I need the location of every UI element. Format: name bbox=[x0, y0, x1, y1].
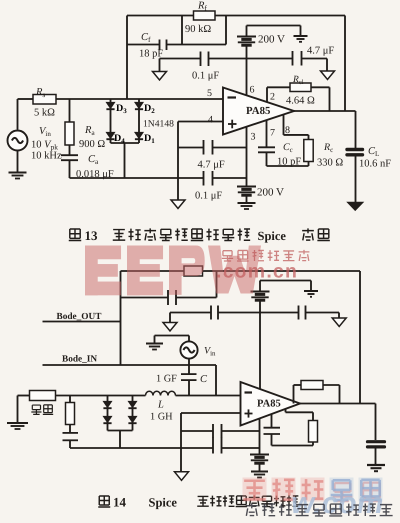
svg-text:Bode_IN: Bode_IN bbox=[62, 355, 97, 365]
svg-text:Bode_OUT: Bode_OUT bbox=[57, 312, 103, 322]
svg-text:10 pF: 10 pF bbox=[277, 157, 301, 168]
svg-text:0.018 μF: 0.018 μF bbox=[76, 169, 114, 180]
svg-text:1 GH: 1 GH bbox=[150, 412, 173, 423]
svg-text:5: 5 bbox=[207, 88, 212, 99]
svg-text:200 V: 200 V bbox=[258, 34, 285, 46]
svg-text:1 GF: 1 GF bbox=[156, 374, 177, 385]
svg-text:Spice: Spice bbox=[258, 229, 287, 243]
svg-text:4.64 Ω: 4.64 Ω bbox=[286, 96, 315, 107]
svg-text:PA85: PA85 bbox=[246, 105, 270, 117]
svg-text:10 kHz: 10 kHz bbox=[31, 151, 62, 162]
svg-text:4: 4 bbox=[208, 115, 213, 126]
svg-text:C: C bbox=[200, 374, 208, 385]
svg-text:2: 2 bbox=[270, 92, 275, 103]
svg-text:.com.cn: .com.cn bbox=[216, 261, 298, 283]
svg-text:3: 3 bbox=[251, 132, 256, 143]
svg-text:4.7 μF: 4.7 μF bbox=[198, 160, 225, 171]
svg-text:Spice: Spice bbox=[149, 496, 178, 510]
svg-text:200 V: 200 V bbox=[257, 187, 284, 199]
svg-text:5 kΩ: 5 kΩ bbox=[34, 108, 55, 119]
svg-text:900 Ω: 900 Ω bbox=[79, 139, 105, 150]
svg-text:0.1 μF: 0.1 μF bbox=[195, 191, 222, 202]
svg-text:13: 13 bbox=[85, 228, 99, 243]
svg-text:18 pF: 18 pF bbox=[139, 49, 163, 60]
svg-text:1N4148: 1N4148 bbox=[143, 119, 174, 130]
svg-text:14: 14 bbox=[113, 495, 127, 510]
svg-text:4.7 μF: 4.7 μF bbox=[307, 46, 334, 57]
svg-text:0.1 μF: 0.1 μF bbox=[192, 71, 219, 82]
svg-text:90 kΩ: 90 kΩ bbox=[185, 24, 211, 35]
svg-text:7: 7 bbox=[270, 128, 275, 139]
svg-text:8: 8 bbox=[285, 125, 290, 136]
svg-text:10.6 nF: 10.6 nF bbox=[359, 159, 391, 170]
svg-text:330 Ω: 330 Ω bbox=[317, 158, 343, 169]
svg-text:L: L bbox=[157, 400, 164, 411]
svg-text:PA85: PA85 bbox=[257, 399, 281, 410]
svg-text:6: 6 bbox=[250, 85, 255, 96]
